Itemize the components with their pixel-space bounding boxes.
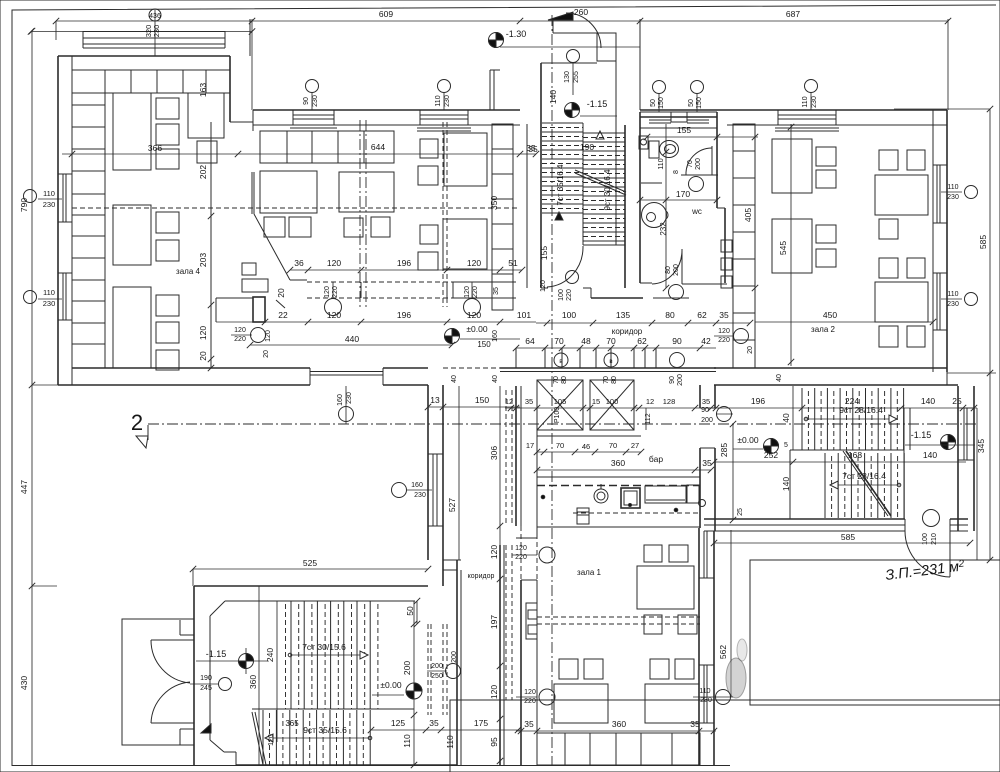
porch outline bbox=[122, 619, 194, 745]
flight arrow lower bbox=[265, 737, 370, 739]
svg-text:50: 50 bbox=[650, 99, 657, 107]
svg-text:9ст 30/16.4: 9ст 30/16.4 bbox=[603, 169, 612, 211]
svg-text:120: 120 bbox=[234, 327, 246, 334]
stairs right boundary bbox=[903, 408, 905, 519]
dim 360/35 bar bbox=[537, 469, 711, 471]
svg-text:360: 360 bbox=[611, 458, 625, 468]
banquette top hall644 bbox=[260, 131, 394, 163]
banquette left column zala4 bbox=[72, 93, 105, 368]
svg-text:140: 140 bbox=[548, 90, 558, 104]
svg-text:25: 25 bbox=[737, 508, 744, 516]
chairs z2 D bbox=[879, 258, 898, 278]
stair stringer diagonal bbox=[575, 170, 626, 192]
svg-text:35: 35 bbox=[528, 144, 538, 154]
svg-text:120: 120 bbox=[467, 258, 481, 268]
dim 405 vertical bbox=[754, 124, 756, 310]
boiler symbol bbox=[639, 136, 648, 149]
wall top zala2 bbox=[640, 109, 947, 111]
table A zala4 bbox=[113, 93, 151, 170]
svg-text:110: 110 bbox=[435, 95, 442, 106]
svg-text:110: 110 bbox=[445, 735, 455, 749]
svg-text:175: 175 bbox=[474, 718, 488, 728]
svg-text:80: 80 bbox=[665, 310, 675, 320]
svg-text:220: 220 bbox=[524, 698, 536, 705]
svg-text:42: 42 bbox=[701, 336, 711, 346]
banquette right hall644 bbox=[492, 124, 513, 310]
wc partition bbox=[681, 174, 718, 176]
door marker 100/210 bbox=[923, 510, 940, 527]
corridor vertical walls bbox=[456, 560, 458, 765]
wc bottom wall bbox=[640, 282, 652, 284]
bar dashed lower bbox=[573, 512, 698, 514]
svg-text:200: 200 bbox=[701, 417, 713, 424]
svg-text:120: 120 bbox=[198, 326, 208, 340]
landing lines bbox=[583, 244, 625, 246]
svg-text:135: 135 bbox=[616, 310, 630, 320]
svg-text:525: 525 bbox=[303, 558, 317, 568]
landing edge bbox=[790, 449, 904, 451]
svg-text:110: 110 bbox=[699, 688, 710, 695]
corridor bottom wall bbox=[500, 367, 716, 369]
stringer diagonal NE bbox=[846, 451, 891, 516]
ext line left bbox=[55, 21, 57, 40]
entry flag symbol bbox=[548, 12, 573, 20]
svg-text:70: 70 bbox=[609, 441, 617, 450]
svg-text:230: 230 bbox=[811, 96, 818, 108]
dim chain left 790/447/430 bbox=[31, 31, 33, 766]
chairs G5 bbox=[242, 263, 256, 275]
table z1 top bbox=[637, 566, 694, 609]
svg-text:196: 196 bbox=[397, 258, 411, 268]
svg-text:35: 35 bbox=[429, 718, 439, 728]
table z1 right bbox=[645, 684, 699, 723]
stringer diagonal sw bbox=[252, 712, 263, 765]
dim 585 right bbox=[989, 109, 991, 560]
svg-text:-1.15: -1.15 bbox=[587, 99, 608, 109]
toilet bowl bbox=[660, 141, 679, 158]
corridor bottom dim 64/70/48/70/62/90/42 y348 bbox=[516, 347, 716, 349]
corridor dim line 101/100/135/80/62/35 y323 bbox=[536, 322, 750, 324]
table G3 bbox=[444, 133, 487, 186]
svg-text:250: 250 bbox=[431, 673, 443, 680]
ext line x252 bbox=[251, 19, 253, 110]
svg-text:230: 230 bbox=[152, 25, 161, 38]
svg-text:50: 50 bbox=[688, 99, 695, 107]
duct dashes left bar bbox=[505, 390, 507, 525]
dim 170 bbox=[640, 199, 717, 201]
bar burner bbox=[594, 489, 608, 503]
svg-text:120: 120 bbox=[515, 545, 527, 552]
svg-text:220: 220 bbox=[718, 337, 730, 344]
svg-text:9ст 35/15.6: 9ст 35/15.6 bbox=[303, 725, 347, 735]
svg-text:36: 36 bbox=[294, 258, 304, 268]
window left-wall 2 bbox=[62, 273, 64, 320]
svg-text:5: 5 bbox=[784, 442, 788, 449]
svg-text:±0.00: ±0.00 bbox=[380, 680, 401, 690]
stairs top dim 196/224/140/25 bbox=[716, 407, 977, 409]
svg-text:110: 110 bbox=[43, 288, 55, 297]
porch double door arcs bbox=[151, 640, 190, 683]
wc internal dim line bbox=[665, 124, 667, 288]
lower flight treads NE bbox=[824, 453, 826, 518]
svg-text:12: 12 bbox=[646, 397, 654, 406]
svg-text:200: 200 bbox=[695, 158, 702, 170]
flight arrow NE lower bbox=[830, 484, 900, 486]
svg-text:366: 366 bbox=[148, 143, 162, 153]
bar dot bbox=[541, 495, 545, 499]
svg-text:200: 200 bbox=[677, 374, 684, 386]
dim chain top 609/260/687 bbox=[56, 20, 948, 22]
svg-text:90: 90 bbox=[303, 97, 310, 105]
axis dash-dot horizontal main bbox=[148, 423, 978, 425]
svg-text:20: 20 bbox=[276, 288, 286, 298]
svg-text:80: 80 bbox=[665, 266, 672, 274]
svg-text:35: 35 bbox=[702, 458, 712, 468]
svg-text:120: 120 bbox=[489, 685, 499, 699]
chairs z1 mid-right bbox=[650, 659, 669, 679]
svg-text:120: 120 bbox=[327, 310, 341, 320]
svg-text:230: 230 bbox=[346, 392, 353, 404]
flight A down arrow bbox=[555, 212, 563, 220]
svg-text:125: 125 bbox=[391, 718, 405, 728]
svg-text:140: 140 bbox=[923, 450, 937, 460]
right wall NE bbox=[957, 386, 959, 531]
chairs z2 C bbox=[816, 225, 836, 243]
svg-text:9ст 28/16.4: 9ст 28/16.4 bbox=[839, 405, 883, 415]
shelf niche squares bbox=[721, 240, 732, 252]
sw hall top wall bbox=[194, 585, 428, 587]
svg-text:150: 150 bbox=[696, 97, 703, 109]
ext line x948 bbox=[947, 19, 949, 110]
svg-text:120: 120 bbox=[540, 280, 547, 292]
west wall of south wing bbox=[427, 385, 429, 560]
stairwell walls bbox=[526, 124, 528, 288]
porch door jamb top bbox=[179, 620, 181, 635]
table z2 A bbox=[772, 139, 812, 193]
svg-text:220: 220 bbox=[234, 336, 246, 343]
corridor dashed upper edge bbox=[307, 281, 453, 283]
svg-text:110: 110 bbox=[658, 158, 665, 169]
svg-text:зала 1: зала 1 bbox=[577, 568, 601, 577]
svg-text:230: 230 bbox=[43, 200, 56, 209]
svg-text:306: 306 bbox=[489, 446, 499, 460]
svg-text:±0.00: ±0.00 bbox=[466, 324, 487, 334]
wing right wall upper bbox=[229, 56, 231, 122]
svg-text:100: 100 bbox=[558, 289, 565, 301]
bar counter unit bbox=[645, 486, 686, 503]
svg-text:20: 20 bbox=[198, 351, 208, 361]
stairwell door arc bbox=[547, 246, 583, 287]
dim 285 vertical bbox=[732, 424, 734, 520]
dim 450 bbox=[755, 321, 933, 323]
dashed opening y368 left bbox=[443, 367, 500, 369]
bar bottom / zala1 top bbox=[516, 537, 537, 539]
svg-text:коридор: коридор bbox=[612, 327, 643, 336]
svg-text:27: 27 bbox=[631, 441, 639, 450]
svg-text:40: 40 bbox=[492, 375, 499, 383]
dim 585 bottom bbox=[714, 542, 970, 544]
svg-text:-1.15: -1.15 bbox=[911, 430, 932, 440]
svg-text:35: 35 bbox=[493, 287, 500, 295]
svg-text:150: 150 bbox=[477, 340, 491, 349]
dim line 366/644/35 y154 bbox=[62, 153, 536, 155]
svg-text:120: 120 bbox=[464, 286, 471, 298]
svg-text:232: 232 bbox=[659, 222, 668, 236]
window right NE bbox=[963, 408, 965, 460]
bar column 2 hatched bbox=[590, 380, 634, 430]
svg-text:7ст 35/16.4: 7ст 35/16.4 bbox=[556, 164, 565, 206]
svg-text:120: 120 bbox=[524, 689, 536, 696]
door NE bbox=[949, 531, 951, 577]
svg-text:527: 527 bbox=[447, 498, 457, 512]
corridor dim line 22/120/196/120 y322 bbox=[216, 321, 536, 323]
bar dim row 17/70/46/70/27 bbox=[537, 451, 641, 453]
table G2 bbox=[339, 172, 394, 212]
svg-text:155: 155 bbox=[539, 246, 549, 260]
bar right wall bbox=[699, 385, 701, 408]
svg-text:120: 120 bbox=[324, 286, 331, 298]
svg-text:Р100: Р100 bbox=[554, 407, 561, 423]
bar inner wall x537 bbox=[536, 430, 538, 538]
svg-text:17: 17 bbox=[526, 441, 534, 450]
svg-text:коридор: коридор bbox=[468, 573, 495, 580]
wall top of zala4 bbox=[58, 55, 230, 57]
stairs bottom wall bbox=[704, 518, 905, 520]
banquette top row zala4 bbox=[72, 70, 230, 93]
chairs z2 B bbox=[879, 150, 898, 170]
axis dash-dot verticals x360 bbox=[359, 120, 361, 307]
dim 545 vertical line bbox=[790, 124, 792, 366]
chairs G2 bbox=[344, 218, 363, 237]
chairs G1 bbox=[264, 217, 285, 237]
chairs z2 D2 bbox=[879, 326, 898, 347]
svg-text:160: 160 bbox=[492, 330, 499, 342]
benchmark -1.30 bbox=[489, 33, 504, 48]
svg-text:46: 46 bbox=[582, 442, 590, 451]
sw stairs upper flight bbox=[290, 601, 292, 709]
terrace right edge x640 bbox=[639, 19, 641, 110]
wall left hall644 with diagonal bbox=[251, 172, 253, 214]
dim chain x500 bbox=[497, 523, 503, 529]
table z1 left bbox=[554, 684, 608, 723]
svg-text:128: 128 bbox=[663, 397, 676, 406]
svg-text:-1.30: -1.30 bbox=[506, 29, 527, 39]
svg-text:110: 110 bbox=[947, 291, 958, 298]
benchmark -1.15 stairwell bbox=[565, 103, 580, 118]
wall left of zala4 bbox=[57, 56, 59, 385]
svg-text:8: 8 bbox=[673, 170, 680, 174]
window right-wall z2 (1) bbox=[936, 165, 938, 223]
wc door arc bottom bbox=[652, 250, 682, 284]
wall right zala2 bbox=[932, 110, 934, 372]
svg-text:25: 25 bbox=[952, 396, 962, 406]
axis dashed verticals x443 bbox=[442, 122, 444, 307]
fixture circles bbox=[554, 353, 568, 367]
window top hall644 (1) bbox=[292, 110, 294, 125]
bar fridge bbox=[577, 508, 589, 524]
dim line top-left aux bbox=[31, 31, 252, 33]
svg-text:196: 196 bbox=[397, 310, 411, 320]
chairs z1 top bbox=[644, 545, 662, 562]
door dashed opening 200/250 bbox=[427, 624, 429, 715]
svg-text:90: 90 bbox=[672, 336, 682, 346]
dim 140 b bbox=[904, 461, 966, 463]
bar sink bbox=[621, 488, 640, 508]
wall bottom zala2 bbox=[714, 367, 947, 369]
chairs C zala4 bbox=[156, 212, 179, 233]
window top hall644 (2) bbox=[419, 110, 421, 125]
terrace corner lines bbox=[489, 70, 491, 110]
svg-text:70: 70 bbox=[687, 160, 694, 168]
service table B bbox=[197, 141, 217, 163]
svg-text:в: в bbox=[559, 359, 562, 365]
window marker 160/230 w bbox=[392, 483, 407, 498]
wall top hall644 bbox=[253, 109, 520, 111]
ext line x640 bbox=[639, 19, 641, 110]
svg-text:447: 447 bbox=[19, 480, 29, 494]
svg-text:120: 120 bbox=[265, 330, 272, 342]
dim 155 wc bbox=[647, 136, 758, 138]
table G4 bbox=[443, 219, 487, 269]
svg-text:252: 252 bbox=[764, 450, 778, 460]
door opening dashed in west wall bbox=[520, 526, 522, 580]
svg-text:40: 40 bbox=[776, 374, 783, 382]
svg-text:155: 155 bbox=[677, 125, 691, 135]
sw stairs lower flight bbox=[262, 710, 264, 765]
svg-text:255: 255 bbox=[573, 71, 580, 83]
svg-text:зала 2: зала 2 bbox=[811, 325, 835, 334]
wc walls bbox=[639, 112, 641, 283]
dim 440 bbox=[250, 344, 452, 346]
table D zala4 bbox=[113, 287, 151, 368]
table G1 bbox=[260, 171, 317, 213]
svg-text:585: 585 bbox=[978, 235, 988, 249]
stair divider bbox=[582, 123, 584, 245]
window left-wall 1 bbox=[62, 174, 64, 222]
svg-text:35: 35 bbox=[702, 397, 710, 406]
chairs z1 mid-left bbox=[559, 659, 578, 679]
svg-text:105: 105 bbox=[554, 397, 567, 406]
svg-text:±0.00: ±0.00 bbox=[737, 435, 758, 445]
svg-text:22: 22 bbox=[278, 310, 288, 320]
axis dashed horiz y208 bbox=[72, 207, 520, 209]
svg-text:200: 200 bbox=[673, 264, 680, 276]
svg-text:790: 790 bbox=[19, 198, 29, 212]
stair flight A treads bbox=[542, 122, 583, 124]
window marker 110/230 top bbox=[443, 92, 445, 110]
stair flight B treads bbox=[583, 132, 625, 134]
axis/ext x346 marker 160/230 bbox=[345, 386, 347, 424]
dim 252 bbox=[714, 461, 793, 463]
svg-text:240: 240 bbox=[265, 648, 275, 662]
svg-text:150: 150 bbox=[658, 97, 665, 109]
bar counter dashed bbox=[537, 476, 700, 478]
dim 527 vertical bbox=[458, 386, 460, 560]
svg-text:wc: wc bbox=[691, 207, 702, 216]
svg-text:120: 120 bbox=[489, 545, 499, 559]
bar column 1 hatched bbox=[537, 380, 583, 430]
table z2 B bbox=[875, 175, 928, 215]
chairs G4 bbox=[420, 225, 438, 244]
svg-text:бар: бар bbox=[649, 454, 663, 464]
bar left wall bbox=[515, 386, 517, 526]
svg-text:20: 20 bbox=[263, 350, 270, 358]
banquette bottom z1 bbox=[537, 733, 700, 765]
svg-text:70: 70 bbox=[554, 336, 564, 346]
window marker 320/230 top bbox=[154, 10, 156, 56]
chairs z2 A bbox=[816, 147, 836, 166]
svg-text:64: 64 bbox=[525, 336, 535, 346]
banquette left zala2 bbox=[733, 124, 755, 368]
wc stall door arc bbox=[686, 148, 712, 175]
svg-text:440: 440 bbox=[345, 334, 359, 344]
svg-text:40: 40 bbox=[451, 375, 458, 383]
svg-text:160: 160 bbox=[411, 482, 423, 489]
window z1 right (2) bbox=[703, 665, 705, 723]
svg-text:200: 200 bbox=[402, 661, 412, 675]
axis dash-dot vertical x552 bbox=[551, 15, 553, 765]
svg-text:230: 230 bbox=[947, 301, 959, 308]
svg-text:110: 110 bbox=[402, 734, 412, 748]
wall bottom of zala4 bbox=[72, 367, 310, 369]
svg-text:163: 163 bbox=[198, 83, 208, 97]
svg-text:40: 40 bbox=[781, 413, 791, 423]
window marker 50/150 (1) bbox=[653, 81, 666, 94]
table z2 C bbox=[772, 219, 812, 273]
dim line 36/120/196/120/51 y270 bbox=[290, 269, 522, 271]
svg-text:90: 90 bbox=[701, 407, 709, 414]
svg-text:зала 4: зала 4 bbox=[176, 267, 200, 276]
dim 525 bbox=[193, 568, 428, 570]
svg-text:160: 160 bbox=[337, 394, 344, 406]
window marker 90/230 bbox=[311, 92, 313, 110]
svg-text:197: 197 bbox=[489, 615, 499, 629]
main west wall bbox=[193, 586, 195, 765]
entry step lines bbox=[552, 20, 554, 33]
svg-text:545: 545 bbox=[778, 241, 788, 255]
wc sink round bbox=[642, 203, 667, 228]
window west wall bbox=[432, 454, 434, 526]
svg-text:20: 20 bbox=[747, 346, 754, 354]
window top zala2 bbox=[777, 110, 779, 125]
window bottom wall bbox=[310, 371, 383, 373]
svg-text:405: 405 bbox=[743, 208, 753, 222]
svg-text:в: в bbox=[609, 359, 612, 365]
chairs D zala4 bbox=[156, 295, 179, 316]
svg-text:13: 13 bbox=[430, 395, 440, 405]
partition right of zala4 bbox=[210, 122, 212, 368]
dim 40 vertical landing bbox=[792, 386, 794, 450]
svg-text:7ст 30/15.6: 7ст 30/15.6 bbox=[302, 642, 346, 652]
svg-text:95: 95 bbox=[489, 737, 499, 747]
window marker 50/150 (2) bbox=[691, 81, 704, 94]
svg-text:430: 430 bbox=[19, 676, 29, 690]
svg-text:350: 350 bbox=[489, 196, 499, 210]
svg-text:202: 202 bbox=[198, 165, 208, 179]
svg-text:100: 100 bbox=[606, 397, 619, 406]
svg-text:230: 230 bbox=[43, 299, 56, 308]
svg-text:230: 230 bbox=[414, 492, 426, 499]
entry door arc bbox=[566, 13, 601, 48]
sw bottom dim 125/35/175 bbox=[371, 729, 520, 731]
svg-text:245: 245 bbox=[200, 685, 212, 692]
zala1 right wall bbox=[698, 528, 700, 765]
dim chain x414 bbox=[413, 601, 415, 765]
chairs G3 bbox=[420, 139, 438, 158]
svg-text:35: 35 bbox=[719, 310, 729, 320]
svg-text:З.П.=231 м2: З.П.=231 м2 bbox=[885, 558, 966, 584]
corridor top wall y298 bbox=[591, 297, 643, 299]
